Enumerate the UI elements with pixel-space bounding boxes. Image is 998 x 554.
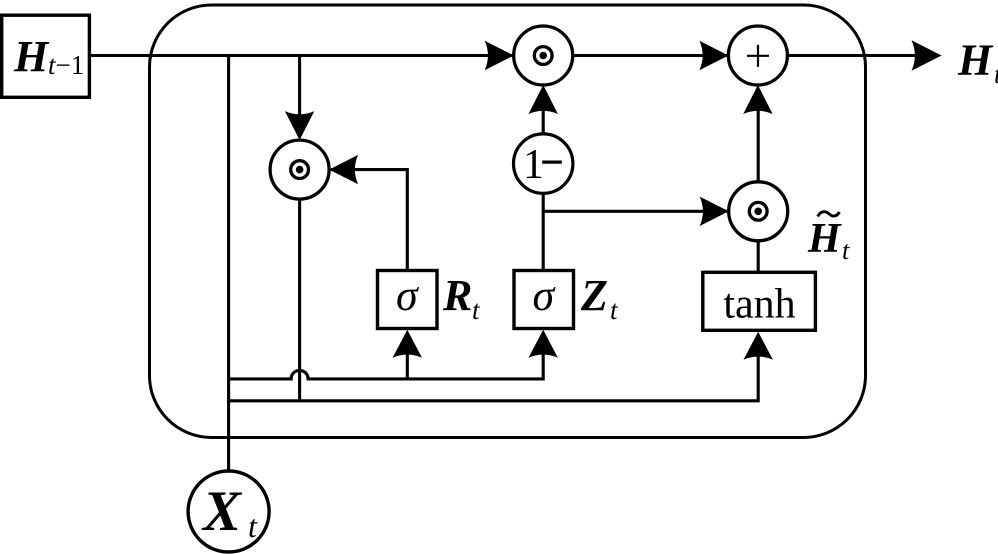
svg-text:H: H [807, 216, 842, 262]
svg-text:σ: σ [533, 271, 557, 320]
svg-text:Z: Z [580, 271, 608, 320]
arrowhead into tanh [744, 332, 773, 360]
arrowhead into candidate multiply (from left) [700, 197, 729, 226]
wire drop from top bus into reset multiply node [298, 56, 301, 119]
svg-text:tanh: tanh [723, 282, 795, 328]
node: elementwise multiply ((1-Z) ⊙ Htilde) [729, 182, 788, 241]
box tanh [703, 272, 816, 330]
wire candidate multiply up to plus [757, 108, 760, 182]
svg-text:t: t [248, 508, 258, 544]
svg-text:X: X [201, 480, 243, 543]
wire plus to output H_t [787, 54, 930, 57]
gate box sigma (reset) [378, 271, 438, 329]
arrowhead into reset multiply (from top) [285, 111, 314, 140]
node: add (+) [728, 26, 787, 85]
wire gate bus up into sigma R [406, 345, 409, 379]
node: elementwise multiply (Z_t ⊙ H_{t-1}) [514, 26, 573, 85]
svg-text:t: t [994, 59, 998, 89]
svg-text:t: t [842, 236, 850, 265]
wire multiply to plus [573, 54, 729, 57]
gate box sigma (update) [514, 271, 574, 329]
arrowhead into top multiply (from below) [529, 85, 558, 114]
node: 1-minus circle [514, 134, 573, 193]
gate bus wire (to sigma gates) with hop [229, 345, 544, 379]
elbow wire sigma R to reset multiply [331, 170, 407, 271]
svg-text:1: 1 [523, 142, 544, 188]
arrowhead into sigma Z [529, 330, 558, 358]
wire H_{t-1} to multiply node (top bus) [89, 54, 514, 57]
svg-text:t−1: t−1 [48, 50, 84, 80]
input box H_{t-1} [2, 15, 90, 97]
node: input X_t [188, 471, 269, 552]
svg-text:R: R [442, 271, 472, 320]
wire tanh up to candidate multiply [757, 241, 760, 272]
arrowhead into plus node [699, 41, 728, 70]
wire sigma Z up to 1-minus node [542, 193, 545, 270]
vertical bus X_t / H_{t-1} concat [227, 56, 230, 472]
svg-text:H: H [957, 36, 994, 85]
arrowhead output H_t [912, 40, 942, 70]
node: elementwise multiply (R_t ⊙ H_{t-1}) [270, 140, 329, 199]
tanh bus wire (candidate input) [229, 345, 759, 401]
wire Z branch to candidate multiply [543, 210, 729, 213]
wire reset multiply output down to tanh bus [298, 199, 301, 401]
arrowhead into reset multiply (from right) [329, 155, 358, 184]
svg-text:σ: σ [396, 271, 420, 320]
wire 1-minus up to top multiply [542, 108, 545, 134]
arrowhead into plus (from below) [743, 85, 772, 114]
label Htilde_t [807, 212, 850, 265]
arrowhead into sigma R [393, 330, 422, 358]
GRU cell boundary [150, 5, 866, 438]
svg-text:H: H [13, 32, 50, 81]
arrowhead into top multiply node [485, 41, 514, 70]
